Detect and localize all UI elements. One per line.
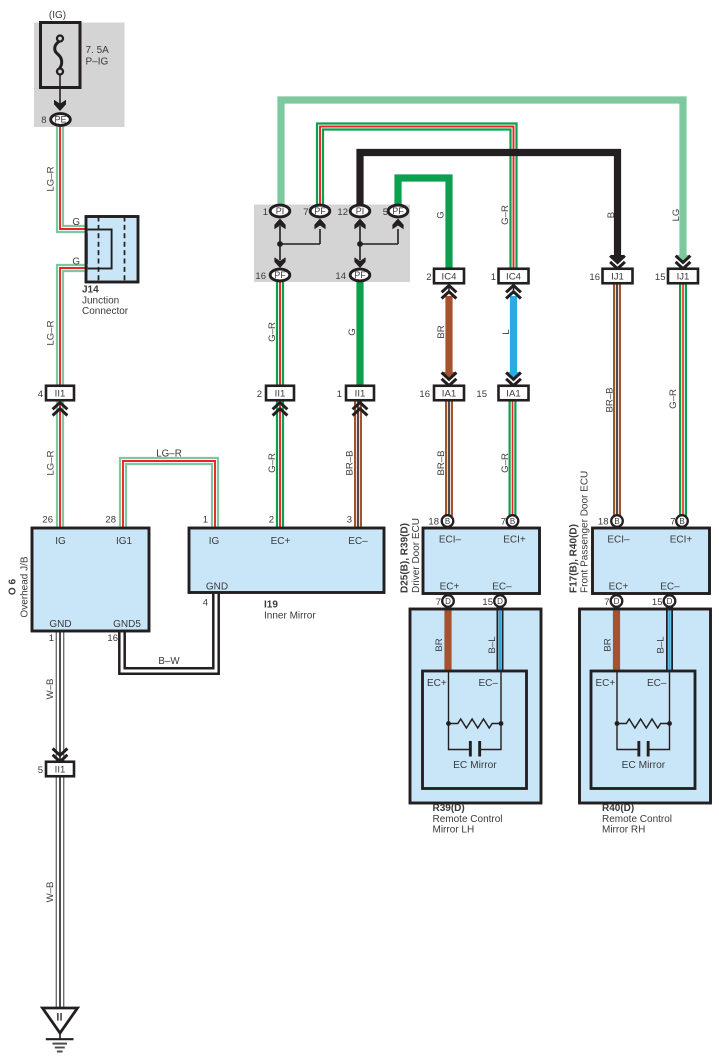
svg-text:D25(B), R39(D): D25(B), R39(D): [400, 523, 411, 593]
svg-text:PI: PI: [276, 206, 285, 216]
svg-text:4: 4: [38, 389, 43, 400]
svg-text:O 6: O 6: [8, 579, 19, 596]
junction connector J14 box: [86, 217, 138, 283]
svg-text:Driver Door ECU: Driver Door ECU: [411, 518, 422, 593]
svg-text:EC+: EC+: [596, 678, 616, 689]
svg-text:W–B: W–B: [45, 882, 56, 903]
wire LG-R from PE to J14: [63, 125, 88, 226]
svg-text:EC–: EC–: [492, 582, 512, 593]
connector II1 pin2: [266, 386, 294, 401]
svg-text:G–R: G–R: [267, 322, 278, 342]
svg-text:GND5: GND5: [113, 619, 141, 630]
svg-text:BR: BR: [602, 638, 613, 651]
svg-text:LG–R: LG–R: [156, 449, 182, 460]
svg-text:LG–R: LG–R: [45, 320, 56, 345]
svg-text:5: 5: [383, 207, 388, 218]
connector PE pin8: [51, 114, 71, 126]
junction dots EC mirror RH: [615, 721, 620, 726]
svg-text:IG1: IG1: [116, 536, 133, 547]
wire G from junction PF pin14 to II1 pin1: [356, 281, 363, 386]
J14 internal bus rectangle: [87, 230, 112, 269]
connector B pin7 passenger ECU: [676, 515, 688, 527]
svg-text:IA1: IA1: [442, 388, 456, 399]
svg-text:II1: II1: [55, 764, 66, 775]
connector B pin7 driver ECU: [507, 515, 519, 527]
svg-text:EC–: EC–: [348, 536, 368, 547]
svg-text:2: 2: [257, 389, 262, 400]
svg-text:EC Mirror: EC Mirror: [453, 760, 497, 771]
junction block internal links: [280, 226, 398, 260]
svg-text:BR: BR: [436, 325, 447, 338]
arrow into PE: [54, 100, 66, 111]
junction connector block background (gray): [254, 205, 410, 283]
junction dots EC mirror LH: [446, 721, 451, 726]
svg-text:EC+: EC+: [271, 536, 291, 547]
svg-text:IG: IG: [209, 536, 220, 547]
svg-text:1: 1: [263, 207, 268, 218]
connector II1 pin4: [46, 386, 74, 401]
svg-text:B: B: [614, 517, 619, 526]
svg-text:Mirror RH: Mirror RH: [602, 825, 645, 836]
svg-text:IA1: IA1: [506, 388, 520, 399]
wire B-L from passenger ECU EC- pin15 to mirror RH: [671, 603, 673, 671]
wire BR-B from II1 pin1 to Inner Mirror EC- pin3: [360, 400, 362, 528]
chevrons below II1 pin4: [53, 403, 68, 410]
svg-text:7. 5A: 7. 5A: [86, 45, 110, 56]
svg-text:16: 16: [419, 389, 430, 400]
svg-text:Remote Control: Remote Control: [433, 814, 503, 825]
svg-text:IJ1: IJ1: [677, 271, 690, 282]
svg-text:Remote Control: Remote Control: [602, 814, 672, 825]
connector PI pin12: [350, 205, 370, 217]
svg-text:4: 4: [203, 598, 208, 609]
EC mirror LH internal wires: [449, 671, 502, 750]
svg-text:7: 7: [303, 207, 308, 218]
connector IA1 pin15: [499, 386, 529, 401]
connector II1 pin5: [46, 762, 74, 777]
svg-text:B–L: B–L: [655, 636, 666, 654]
svg-text:EC Mirror: EC Mirror: [622, 760, 666, 771]
ground symbol II: [43, 1008, 78, 1033]
resistor in EC mirror RH: [617, 719, 670, 728]
svg-text:16: 16: [107, 633, 118, 644]
remote control mirror LH outer box R39(D): [410, 609, 541, 803]
arrows down to PF16 PF14: [274, 257, 285, 268]
svg-text:I19: I19: [264, 600, 278, 611]
svg-text:7: 7: [670, 517, 675, 528]
svg-text:G: G: [435, 211, 446, 218]
inner mirror I19 box: [189, 528, 384, 593]
connector IC4 pin1: [499, 269, 529, 284]
capacitor in EC mirror RH: [637, 741, 640, 757]
svg-text:G–R: G–R: [267, 453, 278, 473]
svg-text:16: 16: [255, 271, 266, 282]
wire BR-B from IJ1 pin16 to passenger door ECU ECI- pin18: [619, 283, 621, 516]
svg-text:BR–B: BR–B: [604, 387, 615, 412]
svg-text:PF: PF: [354, 270, 366, 280]
svg-text:1: 1: [337, 389, 342, 400]
svg-text:1: 1: [203, 515, 208, 526]
svg-text:Front Passenger Door ECU: Front Passenger Door ECU: [580, 471, 591, 593]
svg-text:7: 7: [501, 517, 506, 528]
svg-text:18: 18: [428, 517, 439, 528]
chevrons into IA1 pin16: [442, 373, 457, 380]
wire BR from passenger ECU EC+ pin7 to mirror RH: [613, 603, 620, 671]
chevrons below IC4 pin2: [448, 283, 450, 294]
svg-text:8: 8: [41, 115, 46, 126]
svg-text:EC+: EC+: [427, 678, 447, 689]
svg-text:G: G: [347, 328, 358, 335]
svg-text:IC4: IC4: [442, 271, 458, 282]
wire B from junction PI pin12 to IJ1 pin16: [360, 153, 618, 256]
svg-text:G: G: [72, 257, 80, 268]
svg-text:12: 12: [337, 207, 348, 218]
svg-text:1: 1: [49, 633, 54, 644]
connector IJ1 pin15: [668, 269, 698, 284]
connector B pin18 passenger ECU: [611, 515, 623, 527]
svg-text:Mirror LH: Mirror LH: [433, 825, 475, 836]
svg-text:14: 14: [335, 271, 346, 282]
svg-text:G–R: G–R: [668, 389, 679, 409]
svg-text:ECI+: ECI+: [503, 535, 526, 546]
EC mirror inner box RH: [591, 671, 695, 789]
resistor in EC mirror LH: [449, 719, 502, 728]
svg-text:Connector: Connector: [82, 306, 129, 317]
svg-text:G–R: G–R: [500, 205, 511, 225]
chevrons below II1 pin2: [273, 403, 288, 410]
svg-text:G: G: [72, 217, 80, 228]
connector IJ1 pin16: [603, 269, 633, 284]
connector D pin15 driver ECU: [494, 595, 506, 607]
wire LG from junction PI pin1 to IJ1 pin15: [281, 100, 683, 255]
capacitor in EC mirror LH: [469, 741, 472, 757]
connector B pin18 driver ECU: [442, 515, 454, 527]
svg-text:7: 7: [604, 597, 609, 608]
svg-text:D: D: [667, 597, 673, 606]
svg-text:2: 2: [426, 272, 431, 283]
wire LG-R bridge Overhead J/B IG1 pin28 to Inner Mirror IG pin1: [120, 458, 218, 528]
svg-text:28: 28: [105, 515, 116, 526]
svg-text:(IG): (IG): [49, 10, 66, 21]
svg-text:BR: BR: [434, 638, 445, 651]
wire G-R from IA1 pin15 to driver door ECU ECI+ pin7: [514, 400, 516, 516]
svg-text:LG: LG: [671, 209, 682, 222]
svg-text:IC4: IC4: [506, 271, 522, 282]
driver door ECU box D25(B) R39(D): [423, 528, 540, 594]
svg-text:1: 1: [491, 272, 496, 283]
wire G from junction PF pin5 to IC4 pin2: [398, 178, 449, 269]
svg-text:IJ1: IJ1: [611, 271, 624, 282]
svg-text:15: 15: [476, 389, 487, 400]
svg-text:Inner Mirror: Inner Mirror: [264, 611, 316, 622]
connector D pin7 passenger ECU: [611, 595, 623, 607]
svg-text:P–IG: P–IG: [86, 57, 109, 68]
svg-text:15: 15: [652, 597, 663, 608]
svg-text:D: D: [445, 597, 451, 606]
wire B-W from Inner Mirror GND pin4 to Overhead J/B GND5 pin16: [119, 593, 218, 674]
svg-text:IG: IG: [55, 536, 66, 547]
box border restrokes: [86, 217, 138, 283]
svg-text:R39(D): R39(D): [433, 803, 465, 814]
connector IA1 pin16: [434, 386, 464, 401]
svg-text:II1: II1: [275, 388, 286, 399]
svg-text:GND: GND: [49, 619, 71, 630]
svg-text:18: 18: [598, 517, 609, 528]
svg-text:LG–R: LG–R: [45, 166, 56, 191]
J14 internal dashed pin lines: [98, 217, 100, 283]
svg-text:EC–: EC–: [479, 678, 499, 689]
wire L from IC4 pin1 to IA1 pin15: [510, 296, 517, 372]
svg-text:PE: PE: [54, 115, 66, 125]
svg-text:EC–: EC–: [660, 582, 680, 593]
svg-text:L: L: [501, 329, 512, 335]
svg-text:PF: PF: [392, 206, 404, 216]
connector PF pin16: [270, 269, 290, 281]
svg-text:II1: II1: [355, 388, 366, 399]
chevrons into IJ1 pin16: [610, 256, 625, 263]
chevrons below IC4 pin1: [513, 283, 515, 294]
svg-text:PF: PF: [274, 270, 286, 280]
svg-text:B: B: [679, 517, 684, 526]
svg-text:J14: J14: [82, 285, 99, 296]
svg-text:B–L: B–L: [487, 636, 498, 654]
wire LG-R from J14 to II1 pin4 and Overhead J/B IG pin26: [63, 271, 88, 528]
svg-text:F17(B), R40(D): F17(B), R40(D): [568, 524, 579, 593]
connector D pin15 passenger ECU: [664, 595, 676, 607]
svg-text:7: 7: [436, 597, 441, 608]
svg-text:B: B: [445, 517, 450, 526]
svg-text:BR–B: BR–B: [436, 450, 447, 475]
chevrons into IJ1 pin15: [676, 256, 691, 263]
svg-text:GND: GND: [206, 582, 228, 593]
wire G-R from junction PF pin7 to IC4 pin1: [317, 124, 517, 270]
EC mirror inner box LH: [423, 671, 527, 789]
connector D pin7 driver ECU: [442, 595, 454, 607]
svg-text:26: 26: [42, 515, 53, 526]
wire BR from IC4 pin2 to IA1 pin16: [445, 296, 452, 372]
overhead J/B O6 box: [32, 528, 149, 631]
fuse element symbol: [57, 36, 63, 42]
wire BR from driver ECU EC+ pin7 to mirror LH: [444, 603, 451, 671]
wire G-R from junction PF pin16 to II1 pin2 and Inner Mirror EC+ pin2: [282, 281, 284, 528]
connector PF pin7: [310, 205, 330, 217]
connector IC4 pin2: [434, 269, 464, 284]
svg-text:R40(D): R40(D): [602, 803, 634, 814]
fuse P-IG 7.5A box: [41, 23, 81, 88]
svg-text:ECI+: ECI+: [670, 535, 693, 546]
connector II1 pin1: [346, 386, 374, 401]
svg-text:D: D: [497, 597, 503, 606]
svg-text:Junction: Junction: [82, 296, 119, 307]
svg-text:EC–: EC–: [647, 678, 667, 689]
front passenger door ECU box F17(B) R40(D): [593, 528, 710, 594]
svg-text:Overhead J/B: Overhead J/B: [19, 556, 30, 617]
svg-text:EC+: EC+: [609, 582, 629, 593]
svg-text:PI: PI: [356, 206, 365, 216]
wire W-B from Overhead J/B GND pin1 to ground II: [63, 631, 65, 1008]
svg-text:ECI–: ECI–: [439, 535, 462, 546]
wire fuse to connector PE: [59, 75, 61, 107]
svg-text:II1: II1: [55, 388, 66, 399]
connector PF pin5: [388, 205, 408, 217]
svg-text:W–B: W–B: [45, 679, 56, 700]
chevrons into II1 pin5: [53, 749, 68, 756]
svg-text:D: D: [614, 597, 620, 606]
fuse block background (gray): [34, 23, 125, 128]
svg-text:15: 15: [655, 272, 666, 283]
chevrons into IA1 pin15: [506, 373, 521, 380]
svg-text:5: 5: [38, 765, 43, 776]
wire BR-B from IA1 pin16 to driver door ECU ECI- pin18: [451, 400, 453, 516]
svg-text:BR–B: BR–B: [344, 450, 355, 475]
junction dots: [277, 241, 283, 247]
wire G-R from IJ1 pin15 to passenger door ECU ECI+ pin7: [685, 283, 687, 516]
svg-text:PF: PF: [314, 206, 326, 216]
svg-text:ECI–: ECI–: [607, 535, 630, 546]
svg-text:G–R: G–R: [500, 453, 511, 473]
svg-text:B–W: B–W: [158, 656, 180, 667]
svg-text:3: 3: [347, 515, 352, 526]
svg-text:16: 16: [589, 272, 600, 283]
wire B-L from driver ECU EC- pin15 to mirror LH: [502, 603, 504, 671]
svg-text:2: 2: [269, 515, 274, 526]
svg-text:15: 15: [482, 597, 493, 608]
EC mirror RH internal wires: [617, 671, 670, 750]
svg-text:LG–R: LG–R: [45, 450, 56, 475]
svg-text:B: B: [606, 212, 617, 218]
svg-text:EC+: EC+: [440, 582, 460, 593]
connector PF pin14: [350, 269, 370, 281]
remote control mirror RH outer box R40(D): [580, 609, 711, 803]
arrows up to PI1 PF7 PI12 PF5: [274, 219, 285, 230]
chevrons below II1 pin1: [353, 403, 368, 410]
svg-text:B: B: [510, 517, 515, 526]
connector PI pin1: [270, 205, 290, 217]
